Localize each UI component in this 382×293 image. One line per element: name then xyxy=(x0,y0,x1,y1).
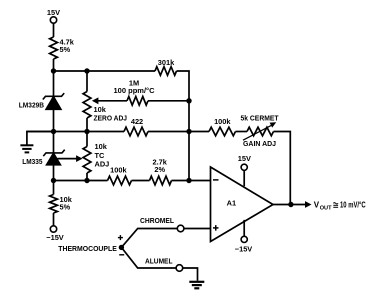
resistor R11 2.7k 2% xyxy=(150,157,172,185)
-15V supply terminal xyxy=(46,226,64,242)
node B junction xyxy=(51,129,56,134)
alumel lead wire xyxy=(121,247,176,268)
wire chromel terminal to op-amp + input xyxy=(184,228,211,230)
label VOUT = 10mV/C xyxy=(314,201,366,212)
svg-text:A1: A1 xyxy=(227,199,236,208)
chromel terminal xyxy=(177,225,184,232)
wire mid rail ground to R5 xyxy=(27,131,124,133)
svg-text:−15V: −15V xyxy=(46,233,64,242)
thermocouple - polarity xyxy=(119,254,124,256)
thermocouple + polarity xyxy=(118,235,123,240)
node A junction xyxy=(51,68,56,73)
resistor R6 10k 5% xyxy=(50,195,73,214)
svg-text:ZERO ADJ: ZERO ADJ xyxy=(94,113,128,122)
svg-text:2%: 2% xyxy=(154,165,165,174)
wire R11 to node F xyxy=(172,180,190,182)
resistor R2 301k xyxy=(155,58,177,75)
svg-text:100 ppm/°C: 100 ppm/°C xyxy=(114,86,156,95)
temp sensor LM335 xyxy=(22,132,64,181)
ground G1 xyxy=(20,132,53,153)
node A2 junction (zero-adj pot top) xyxy=(84,68,89,73)
output arrow xyxy=(305,201,312,208)
node E junction xyxy=(186,129,191,134)
wire top rail node A to R2 xyxy=(54,70,156,72)
svg-text:301k: 301k xyxy=(158,58,175,67)
output node junction xyxy=(288,202,293,207)
svg-text:CHROMEL: CHROMEL xyxy=(140,216,174,225)
wire R10 to R11 xyxy=(132,180,150,182)
wire node C to R6 xyxy=(53,181,55,195)
potentiometer R9 10k TC ADJ xyxy=(83,132,109,181)
wire R4 to right rail node D xyxy=(148,100,189,102)
svg-text:TC: TC xyxy=(95,151,106,160)
wire R1 to node A xyxy=(53,59,55,71)
wire node C to R10 xyxy=(54,180,108,182)
svg-text:100k: 100k xyxy=(110,165,127,174)
wire node E to R7 xyxy=(189,131,209,133)
svg-text:LM329B: LM329B xyxy=(19,100,44,109)
resistor R1 4.7k 5% xyxy=(50,37,75,59)
svg-text:GAIN ADJ: GAIN ADJ xyxy=(243,139,276,148)
LM335 adj wiper arrow to TC pot xyxy=(58,155,83,162)
svg-text:5%: 5% xyxy=(60,202,71,211)
wire R6 to -15V terminal xyxy=(53,213,55,226)
svg-text:LM335: LM335 xyxy=(22,157,42,166)
resistor R5 422 xyxy=(124,117,148,136)
wire R5 to node E xyxy=(148,131,189,133)
resistor R10 100k xyxy=(108,165,132,184)
thermocouple junction node xyxy=(58,244,124,253)
wire alumel terminal to ground G2 xyxy=(183,268,198,281)
svg-text:−15V: −15V xyxy=(235,244,253,253)
svg-text:ADJ: ADJ xyxy=(95,160,110,169)
potentiometer R3 10k ZERO ADJ xyxy=(83,71,127,132)
svg-text:ALUMEL: ALUMEL xyxy=(145,257,173,266)
svg-text:15V: 15V xyxy=(47,8,60,17)
svg-text:5%: 5% xyxy=(60,45,71,54)
op-amp A1 xyxy=(211,167,274,242)
node F junction xyxy=(186,178,191,183)
node C junction xyxy=(51,178,56,183)
wire node A to LM329B xyxy=(53,71,55,96)
svg-text:10 mV/°C: 10 mV/°C xyxy=(340,201,366,210)
alumel terminal xyxy=(176,265,183,272)
svg-text:5k CERMET: 5k CERMET xyxy=(241,113,279,122)
potentiometer R8 5k CERMET GAIN ADJ xyxy=(241,113,279,148)
zero-adj wiper arrow xyxy=(92,97,127,104)
ground G2 xyxy=(189,282,204,289)
op-amp -15V supply xyxy=(235,220,253,254)
op-amp +15V supply xyxy=(238,154,251,186)
svg-text:OUT: OUT xyxy=(320,205,332,211)
zener diode LM329B xyxy=(19,93,64,109)
+15V supply terminal xyxy=(47,8,60,23)
svg-text:10k: 10k xyxy=(95,142,108,151)
wire 15V terminal to R1 xyxy=(53,23,55,37)
resistor R7 100k xyxy=(209,117,236,136)
wire R7 to R8 xyxy=(236,131,248,133)
wire R2 to right rail corner xyxy=(177,71,190,101)
resistor R4 1M 100ppm xyxy=(114,78,156,105)
chromel lead wire xyxy=(121,216,177,248)
wire node F to op-amp inverting input xyxy=(189,180,211,182)
wire op-amp output xyxy=(273,204,305,206)
right rail wire node D to node E xyxy=(188,101,190,132)
svg-text:100k: 100k xyxy=(214,117,231,126)
node C2 junction (tc pot bottom) xyxy=(84,178,89,183)
feedback wire R8 to output node xyxy=(274,132,291,205)
node B2 junction (tc pot top) xyxy=(84,129,89,134)
node D junction xyxy=(186,98,191,103)
svg-text:15V: 15V xyxy=(238,154,251,163)
svg-text:THERMOCOUPLE: THERMOCOUPLE xyxy=(58,244,117,253)
wire LM329B to node B xyxy=(53,110,55,132)
right rail wire node E to node F xyxy=(188,132,190,181)
svg-text:422: 422 xyxy=(131,117,143,126)
